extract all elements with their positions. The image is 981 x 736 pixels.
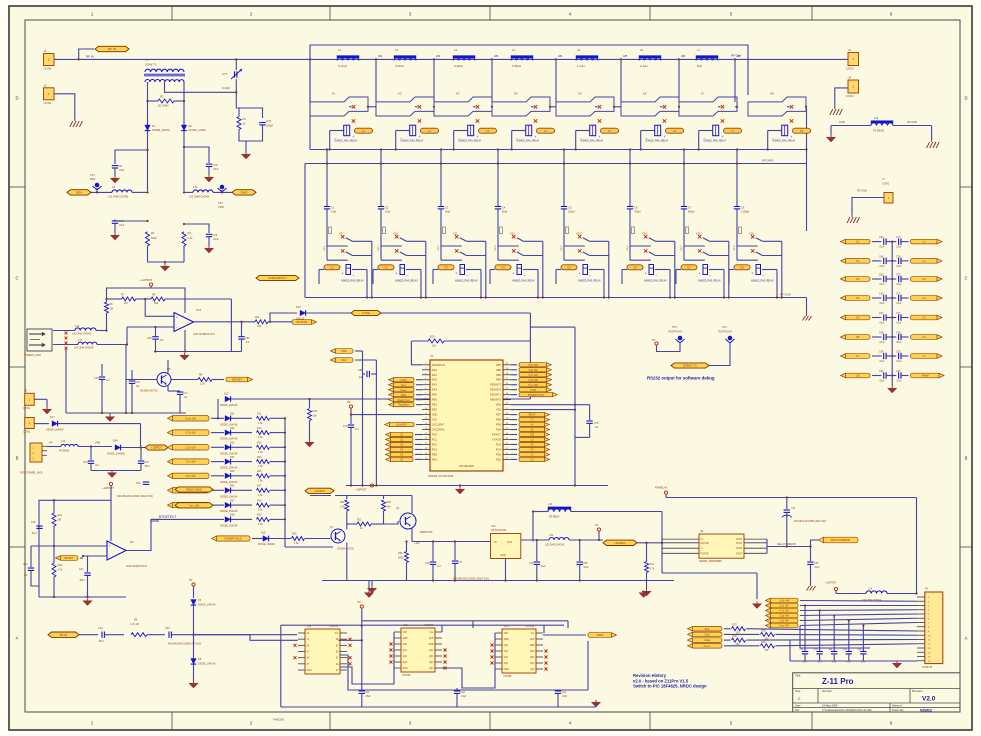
ground [927,140,940,148]
svg-text:RA0: RA0 [432,369,437,372]
svg-text:Size: Size [795,689,801,693]
svg-text:D06: D06 [230,485,235,488]
svg-text:Revision: Revision [912,689,923,693]
svg-text:RELAYCOMMON: RELAYCOMMON [777,543,796,546]
svg-text:R22: R22 [357,519,362,522]
svg-text:C26: C26 [245,337,250,340]
svg-text:.01uf: .01uf [802,662,807,664]
svg-text:J2: J2 [44,83,47,87]
svg-text:2N3904-SOT23: 2N3904-SOT23 [337,548,354,551]
wire bus [305,163,807,165]
net flag 1.0u SW [168,459,225,464]
svg-text:.1uf: .1uf [135,385,139,388]
resistor R23 [292,533,331,546]
svg-text:2Y: 2Y [307,652,310,654]
power 5V [347,400,353,408]
resistor R22 [347,516,398,531]
svg-text:TP2: TP2 [218,201,223,205]
diode D8 [191,635,216,681]
svg-text:K14: K14 [642,232,647,236]
svg-text:FWD: FWD [218,205,224,209]
svg-text:1.2uH: 1.2uH [577,64,584,68]
ground [70,119,83,127]
svg-text:4Y: 4Y [336,670,339,672]
capacitor C42 [83,445,99,470]
wire [657,343,681,352]
wire [83,555,107,557]
svg-text:.01uf: .01uf [461,695,467,698]
svg-text:N3WDZ_RAS_RELAY: N3WDZ_RAS_RELAY [335,140,358,143]
net flag LabelBus [603,540,637,545]
svg-text:C44: C44 [136,482,141,485]
resistor R3 [182,231,193,246]
power port FWD [232,190,256,195]
svg-text:DIODE_1N4148: DIODE_1N4148 [220,452,238,455]
svg-text:1MR: 1MR [403,638,408,640]
wire [852,198,884,216]
svg-text:K12: K12 [510,232,515,236]
svg-text:N3WDZ_RAS_RELAY: N3WDZ_RAS_RELAY [512,280,535,283]
wire [184,330,186,352]
svg-text:RF GND: RF GND [857,189,867,193]
stereo jack J5 [24,329,67,357]
svg-text:C79: C79 [896,351,901,354]
logic IC U11 74HC06 [294,625,352,674]
svg-text:_: _ [703,135,706,139]
svg-text:30: 30 [506,413,508,415]
capacitor C7 [681,148,695,246]
svg-text:463-MKA50VC180M (1uF 50V): 463-MKA50VC180M (1uF 50V) [168,643,201,646]
svg-text:VOUT: VOUT [736,538,743,541]
svg-text:RC3: RC3 [432,448,438,451]
svg-text:R1: R1 [243,117,247,121]
wire [620,59,622,102]
svg-text:19-May-2009: 19-May-2009 [822,704,838,708]
wire bus [39,596,126,598]
svg-text:C8: C8 [119,164,123,168]
ground [888,386,897,393]
svg-text:Yellow: Yellow [704,639,711,642]
svg-text:2MR: 2MR [429,644,434,646]
net flag +Real [911,373,945,378]
net flag L5 [511,427,550,431]
svg-text:Turn LED: Turn LED [189,505,200,508]
svg-text:1.5k: 1.5k [258,523,263,526]
svg-text:ORG: ORG [401,394,407,397]
svg-text:RE2: RE2 [432,409,437,412]
svg-text:C27: C27 [791,507,796,510]
ground [83,599,92,606]
net flag C6 [386,457,423,461]
svg-text:D05: D05 [230,470,235,473]
svg-text:_: _ [352,271,355,275]
svg-text:_: _ [772,135,775,139]
svg-text:C.5p SW: C.5p SW [528,379,538,382]
svg-text:2Q1: 2Q1 [429,656,434,658]
wire [368,581,370,591]
svg-text:2CP: 2CP [530,639,535,641]
svg-text:1.5k: 1.5k [258,479,263,482]
svg-text:19: 19 [425,453,427,455]
svg-text:B: B [965,456,968,461]
svg-text:DIODE_1N4148: DIODE_1N4148 [198,604,216,607]
svg-text:+12PROT: +12PROT [314,489,326,493]
wire bus [310,149,807,151]
svg-text:C72: C72 [266,119,272,123]
svg-text:FWD: FWD [241,191,249,195]
svg-text:DL/HLRX: DL/HLRX [396,424,407,427]
svg-text:C43: C43 [144,461,149,464]
resistor R14 [257,442,287,454]
relay K14 [627,227,676,299]
inductor L13 [862,588,917,603]
wire [511,403,590,420]
svg-text:2: 2 [425,368,426,370]
svg-text:RD3: RD3 [496,453,502,456]
svg-text:.01uf: .01uf [814,566,820,569]
svg-text:10pf: 10pf [331,210,336,214]
net flag L7 [911,354,943,359]
svg-text:1MR: 1MR [504,639,509,641]
svg-text:N3WDZ_RAS_RELAY: N3WDZ_RAS_RELAY [517,140,540,143]
net flag C6 [511,442,550,446]
svg-text:5uH: 5uH [697,64,702,68]
svg-text:.01uf: .01uf [896,322,902,325]
svg-text:1Q2: 1Q2 [504,657,509,659]
power port TUNE [351,310,381,315]
svg-text:2M: 2M [124,301,128,305]
net label RF GND [780,293,791,297]
svg-text:.1uf: .1uf [437,565,441,568]
svg-text:REVDET: REVDET [232,379,243,382]
svg-text:NGATE: NGATE [701,542,709,545]
ground [364,591,373,598]
power port +12PROT [305,488,334,493]
svg-text:V2.0: V2.0 [922,696,936,703]
diode D02 [220,427,252,441]
svg-text:C7: C7 [856,354,860,358]
net flag FWD [331,349,363,354]
net flag 1.10u SW [766,598,918,603]
svg-text:+: + [535,135,537,139]
net flag Red [389,383,423,387]
svg-text:RFCAPS: RFCAPS [762,159,773,163]
svg-text:+: + [353,135,355,139]
svg-text:C5: C5 [567,265,571,269]
svg-text:R16: R16 [257,470,262,473]
wire [79,49,94,59]
svg-text:+12PROT: +12PROT [102,486,114,490]
wire [194,321,255,323]
svg-text:LB5: LB5 [623,55,628,58]
resistor R13 [257,427,287,439]
svg-text:_: _ [645,135,648,139]
capacitor C1 [324,148,337,246]
svg-text:N3WDZ_RAS_RELAY: N3WDZ_RAS_RELAY [751,280,774,283]
capacitor C75 [575,421,599,437]
svg-text:L6: L6 [640,48,644,52]
svg-text:74HC06: 74HC06 [272,718,283,722]
svg-text:RE0: RE0 [432,399,437,402]
svg-text:Tune SW: Tune SW [528,384,539,387]
relay coil driver L4 [511,119,555,150]
wire [350,413,422,415]
svg-text:5A: 5A [336,651,339,654]
svg-text:K1: K1 [332,92,336,96]
capacitor C16 [343,408,359,486]
inductor L19 [545,534,603,547]
svg-text:C80: C80 [583,562,588,565]
svg-text:R26: R26 [398,552,403,555]
svg-text:5.1u SW: 5.1u SW [528,374,538,377]
relay K5 [556,92,621,117]
svg-text:120 OHM CHOKE: 120 OHM CHOKE [189,196,210,199]
svg-text:+: + [664,135,666,139]
svg-text:GND: GND [307,670,312,672]
svg-text:+: + [599,135,601,139]
svg-text:REV: REV [76,191,82,195]
svg-text:_: _ [458,135,461,139]
relay coil driver L5 [575,119,619,150]
wire [806,298,808,315]
relay K3 [434,92,493,117]
svg-text:C76: C76 [896,293,901,296]
svg-text:1A: 1A [307,632,310,635]
testpoint TP1 [90,173,102,192]
svg-text:9: 9 [425,403,426,405]
svg-text:T1: T1 [145,58,149,62]
relay K6 [621,92,680,117]
svg-text:2CP: 2CP [429,638,434,640]
svg-text:600k: 600k [398,557,404,560]
svg-text:C7: C7 [687,265,691,269]
svg-text:L2: L2 [922,259,926,263]
wire [127,326,174,345]
svg-text:J3: J3 [848,48,851,52]
resistor R23 [257,456,287,468]
capacitor C62 [872,370,886,383]
svg-text:L5: L5 [577,48,581,52]
net flag L4 [911,296,943,301]
svg-text:C20: C20 [31,521,36,524]
svg-text:0.39uH: 0.39uH [454,64,463,68]
svg-text:+12PROT: +12PROT [151,447,162,450]
svg-text:RD2: RD2 [496,458,502,461]
svg-text:3Y: 3Y [307,664,310,666]
diode D15 [258,532,291,547]
wire [213,191,232,193]
capacitor C2 [378,148,391,246]
svg-text:REVPWR: REVPWR [297,321,308,324]
svg-text:+12PROT: +12PROT [825,581,837,585]
capacitor C76 [886,293,902,306]
ground [826,135,835,142]
relay coil driver C5 [556,265,605,299]
power FWRELAY [655,486,668,495]
net flag FORWARDOUT [256,275,299,280]
diode D1 [145,124,170,132]
svg-text:RB1/INT1: RB1/INT1 [490,394,502,397]
svg-text:5V: 5V [358,600,362,604]
svg-text:.1uf: .1uf [245,341,249,344]
svg-text:1N5711: 1N5711 [296,318,305,321]
svg-text:74C595: 74C595 [503,675,512,678]
svg-text:1Q1: 1Q1 [403,650,408,652]
wire [806,164,808,232]
resistor R13 [645,542,655,589]
capacitor C19 [98,627,124,643]
svg-text:10k: 10k [257,324,262,328]
wire [126,343,128,384]
svg-text:D1: D1 [152,124,156,128]
svg-text:16: 16 [425,438,427,440]
resistor R1 [237,108,247,130]
net flag Radio Cmd [389,398,423,402]
ground [204,246,213,253]
svg-text:FWD: FWD [341,350,347,353]
svg-text:.01uf: .01uf [562,695,568,698]
svg-text:OSC2/RA6: OSC2/RA6 [432,429,445,432]
svg-text:C5: C5 [568,206,572,210]
ground [204,175,213,182]
svg-text:DIODE_1N4148: DIODE_1N4148 [220,510,238,513]
svg-text:A: A [965,636,968,641]
svg-text:.01uf: .01uf [879,283,885,286]
svg-text:RD0: RD0 [432,453,438,456]
diode D06 [220,485,252,499]
svg-text:2Q2: 2Q2 [530,663,535,665]
svg-text:STEREO_JACK: STEREO_JACK [24,354,42,357]
ground [241,152,250,159]
svg-text:.01uf: .01uf [540,565,546,568]
svg-text:+: + [752,271,754,275]
svg-text:50k: 50k [154,301,159,305]
svg-text:.1uf: .1uf [23,574,27,577]
svg-text:C14: C14 [213,233,218,237]
wire [734,59,736,102]
relay K7 [679,92,738,117]
connector J9 [23,418,34,434]
svg-text:RX/RC7: RX/RC7 [492,434,502,437]
svg-text:463-MKALSVC33M (33uF 16V): 463-MKALSVC33M (33uF 16V) [794,520,826,523]
ground [180,353,189,360]
svg-text:R28: R28 [762,630,767,632]
capacitor C74 [886,255,902,268]
svg-text:R19: R19 [430,336,435,339]
svg-text:D12: D12 [224,393,229,396]
svg-text:C68: C68 [879,332,884,335]
svg-text:C23: C23 [562,691,567,694]
svg-text:VSS: VSS [496,409,501,412]
voltage regulator U10 [491,525,521,581]
svg-text:680pf: 680pf [688,210,695,214]
svg-text:Date: Date [795,704,801,708]
net flag C7 [841,354,871,359]
resistor R7 [105,293,151,306]
svg-text:RF BEAD: RF BEAD [873,129,884,133]
svg-text:OE.5: OE.5 [561,245,563,251]
capacitor C33 [828,614,837,663]
svg-text:LMC7211BOT23-5: LMC7211BOT23-5 [126,565,147,568]
capacitor C14 [206,233,219,246]
svg-text:1.10u SW: 1.10u SW [779,600,790,603]
svg-text:5.0n SW: 5.0n SW [528,364,538,367]
capacitor C70 [529,539,546,581]
mosfet driver U9 [662,530,768,563]
wire [530,327,576,487]
diode D2 [181,124,206,132]
junction [891,316,893,318]
net flag C5 [511,447,550,451]
svg-text:FORWARDOUT: FORWARDOUT [268,276,287,280]
svg-text:_: _ [334,135,337,139]
net flag ORG [389,393,423,397]
svg-text:.1uf: .1uf [358,376,362,379]
svg-text:R6: R6 [152,293,156,297]
svg-text:N3WDZ_RAS_RELAY: N3WDZ_RAS_RELAY [459,140,482,143]
svg-text:RD7: RD7 [496,414,502,417]
svg-text:120 OHM CHOKE: 120 OHM CHOKE [72,333,92,336]
svg-text:L7: L7 [697,48,701,52]
svg-text:TP4: TP4 [722,326,727,329]
svg-text:LB2: LB2 [436,55,441,58]
svg-text:37: 37 [506,378,508,380]
svg-text:TX/RC6: TX/RC6 [492,439,502,442]
svg-text:BTDETECT: BTDETECT [159,515,176,519]
resistor R34 [52,546,63,597]
inductor L11 RF BEAD [831,116,932,140]
svg-text:D04: D04 [230,456,235,459]
svg-text:R2: R2 [160,95,164,99]
net flag C4 [386,447,423,451]
svg-text:K15: K15 [696,232,701,236]
svg-text:5V: 5V [189,578,193,582]
svg-text:.1uf: .1uf [355,428,359,431]
svg-text:_: _ [466,271,469,275]
net flag RADIO WAKE [168,488,225,493]
svg-text:R25: R25 [387,501,392,504]
svg-text:VOUT: VOUT [736,552,743,555]
wire [901,336,909,338]
svg-text:RA5: RA5 [432,394,437,397]
svg-text:Red: Red [401,384,406,387]
diode D04 [220,456,252,470]
svg-text:+12PROT: +12PROT [140,278,153,282]
net label RF GND [857,189,867,193]
svg-text:17: 17 [425,443,427,445]
ground [305,440,314,447]
net flag C3 [386,442,423,446]
capacitor C29 [165,627,201,646]
wire [183,146,209,163]
svg-text:.01uf: .01uf [817,662,822,664]
capacitor C68 [872,332,886,345]
connector J4 [846,76,859,99]
net flag C2 [841,259,871,264]
wire [666,494,917,509]
wire [107,286,186,313]
wire [54,58,848,60]
svg-text:4A: 4A [336,663,339,666]
net flag 5VSENSE [292,320,317,325]
inductor L16 [53,325,108,336]
svg-text:_: _ [580,135,583,139]
resistor R32 [257,514,287,526]
wire [31,536,107,547]
svg-text:+: + [419,135,421,139]
capacitor C5 [561,148,575,246]
wire [194,634,298,636]
